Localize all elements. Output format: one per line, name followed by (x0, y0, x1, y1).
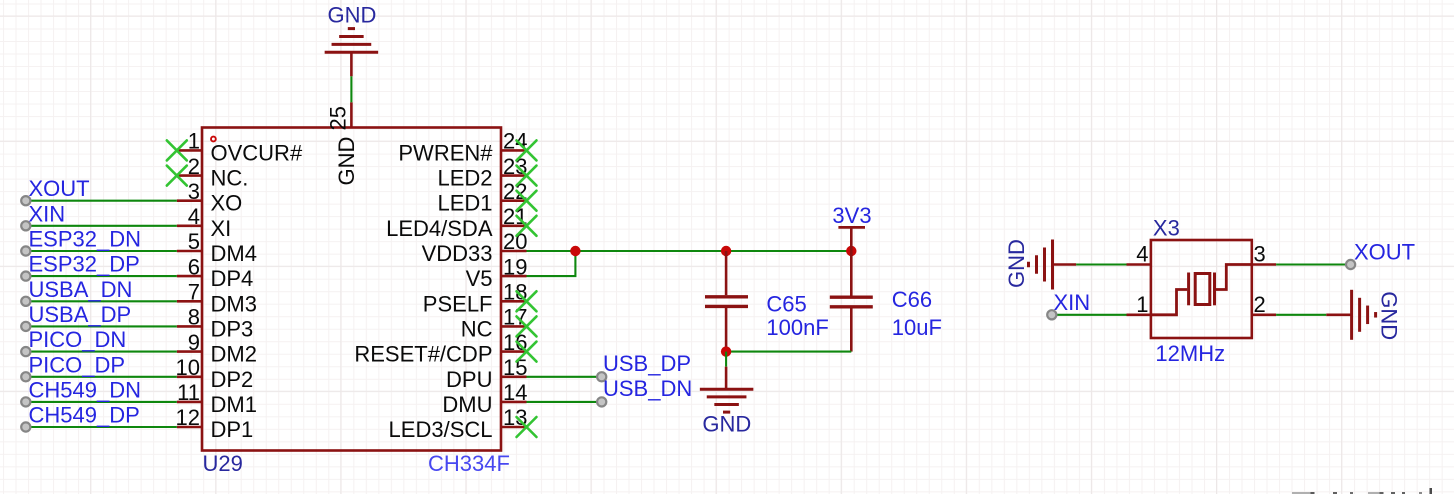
svg-text:GND: GND (702, 411, 751, 436)
svg-text:USB_DP: USB_DP (603, 351, 691, 376)
svg-text:USBA_DN: USBA_DN (29, 277, 133, 302)
X3 pin 4 stub (1127, 263, 1151, 266)
node pad USBA_DN (21, 297, 30, 306)
svg-text:1: 1 (188, 129, 200, 154)
wire pin25 to ground (350, 76, 352, 102)
svg-text:6: 6 (188, 254, 200, 279)
svg-text:1: 1 (1136, 292, 1148, 317)
pin 17 stub (501, 325, 527, 328)
svg-text:ESP32_DN: ESP32_DN (29, 227, 142, 252)
node pad XIN (21, 221, 30, 230)
junction C65 top (721, 246, 731, 256)
svg-text:C65: C65 (766, 291, 806, 316)
node pad USB_DN (597, 397, 606, 406)
pin 2 stub (177, 174, 202, 177)
wire net ESP32_DP (26, 275, 177, 277)
svg-text:22: 22 (503, 179, 527, 204)
svg-text:24: 24 (503, 129, 527, 154)
svg-text:11: 11 (177, 380, 200, 405)
svg-text:9: 9 (188, 330, 200, 355)
svg-text:7: 7 (188, 280, 200, 305)
node pad USBA_DP (21, 322, 30, 331)
wire net ESP32_DN (26, 250, 177, 252)
wire pin2 to ground (1276, 314, 1326, 316)
node pad ESP32_DN (21, 246, 30, 255)
pin 25 stub (350, 102, 353, 127)
svg-text:17: 17 (503, 305, 527, 330)
pin 4 stub (177, 225, 202, 228)
svg-text:CH334F: CH334F (428, 451, 510, 476)
wire XIN to pin 1 (1052, 314, 1127, 316)
wire USB_DP (pin 15) (527, 376, 602, 378)
svg-text:LED4/SDA: LED4/SDA (386, 216, 493, 241)
node pad XOUT (21, 196, 30, 205)
node pad PICO_DP (21, 372, 30, 381)
svg-text:PSELF: PSELF (423, 291, 493, 316)
svg-text:20: 20 (503, 229, 527, 254)
svg-text:LED3/SCL: LED3/SCL (389, 417, 493, 442)
wire net CH549_DN (26, 401, 177, 403)
svg-text:XOUT: XOUT (29, 176, 90, 201)
svg-text:18: 18 (503, 280, 527, 305)
svg-text:12: 12 (176, 405, 200, 430)
svg-text:X3: X3 (1153, 215, 1180, 240)
crystal X3 body (1151, 240, 1252, 338)
node pad CH549_DP (21, 422, 30, 431)
svg-text:3: 3 (1254, 242, 1266, 267)
no-connect flag pin 21 (517, 216, 537, 236)
svg-text:OVCUR#: OVCUR# (211, 140, 303, 165)
pin 9 stub (177, 350, 202, 353)
capacitor C66 (850, 251, 853, 296)
svg-text:VDD33: VDD33 (422, 241, 493, 266)
pin 5 stub (177, 250, 202, 253)
no-connect flag pin 18 (517, 291, 537, 311)
no-connect flag pin 24 (517, 140, 537, 160)
svg-text:GND: GND (1004, 239, 1029, 288)
svg-text:DM3: DM3 (211, 291, 257, 316)
svg-text:15: 15 (503, 355, 527, 380)
wire VDD33 (pin 20 to 3V3/C66) (527, 250, 852, 252)
svg-text:2: 2 (1254, 292, 1266, 317)
node pad PICO_DN (21, 347, 30, 356)
svg-text:GND: GND (1377, 291, 1402, 340)
wire pin3 to XOUT (1276, 263, 1351, 265)
wire V5 (pin 19 up to VDD33) (527, 251, 576, 276)
pin 8 stub (177, 325, 202, 328)
node pad XOUT (1346, 260, 1355, 269)
pin 24 stub (501, 149, 527, 152)
pin 1 indicator dot (211, 137, 216, 142)
svg-text:XIN: XIN (29, 201, 66, 226)
wire net PICO_DN (26, 351, 177, 353)
X3 pin 3 stub (1252, 263, 1276, 266)
svg-text:PICO_DN: PICO_DN (29, 327, 127, 352)
no-connect flag pin 23 (517, 166, 537, 186)
svg-text:12MHz: 12MHz (1155, 341, 1225, 366)
svg-text:CH549_DN: CH549_DN (29, 377, 142, 402)
svg-text:USB_DN: USB_DN (603, 376, 692, 401)
wire pin4 to ground (1076, 263, 1126, 265)
svg-text:10uF: 10uF (892, 315, 942, 340)
pin 22 stub (501, 199, 527, 202)
svg-text:DM4: DM4 (211, 241, 257, 266)
svg-text:C66: C66 (892, 287, 932, 312)
svg-text:DPU: DPU (446, 367, 492, 392)
wire junction down to ground (725, 352, 727, 367)
svg-text:21: 21 (503, 204, 527, 229)
svg-text:USBA_DP: USBA_DP (29, 302, 132, 327)
pin 16 stub (501, 350, 527, 353)
node pad USB_DP (597, 372, 606, 381)
X3 pin 2 stub (1252, 313, 1276, 316)
wire C65 bottom to C66 bottom (726, 351, 851, 353)
svg-text:NC.: NC. (211, 166, 249, 191)
wire net CH549_DP (26, 426, 177, 428)
svg-text:XO: XO (211, 191, 243, 216)
wire net PICO_DP (26, 376, 177, 378)
svg-text:4: 4 (188, 204, 200, 229)
junction C65 bottom (721, 346, 731, 356)
junction 3V3/C66 (846, 246, 856, 256)
wire net XOUT (26, 200, 177, 202)
pin 23 stub (501, 174, 527, 177)
svg-text:13: 13 (503, 405, 527, 430)
wire net XIN (26, 225, 177, 227)
no-connect flag pin 13 (517, 417, 537, 437)
svg-text:DP3: DP3 (211, 316, 254, 341)
svg-text:XOUT: XOUT (1354, 240, 1415, 265)
pin 6 stub (177, 275, 202, 278)
crystal inner symbol (1151, 290, 1187, 315)
svg-text:8: 8 (188, 305, 200, 330)
svg-text:CH549_DP: CH549_DP (29, 403, 140, 428)
svg-text:DP2: DP2 (211, 367, 254, 392)
pin 21 stub (501, 225, 527, 228)
ground (top, above pin 25) (325, 51, 379, 54)
svg-text:GND: GND (328, 3, 377, 28)
svg-text:100nF: 100nF (766, 315, 828, 340)
ground (right of X3) (1326, 313, 1351, 316)
wire USB_DN (pin 14) (527, 401, 602, 403)
pin 20 stub (501, 250, 527, 253)
svg-text:GND: GND (334, 137, 359, 186)
svg-text:2: 2 (188, 154, 200, 179)
node pad ESP32_DP (21, 272, 30, 281)
svg-text:23: 23 (503, 154, 527, 179)
svg-text:V5: V5 (466, 266, 493, 291)
no-connect flag pin 1 (167, 140, 187, 160)
svg-text:XIN: XIN (1054, 290, 1091, 315)
pin 15 stub (501, 375, 527, 378)
pin 14 stub (501, 401, 527, 404)
svg-text:19: 19 (503, 254, 527, 279)
svg-text:DMU: DMU (442, 392, 492, 417)
svg-text:RESET#/CDP: RESET#/CDP (354, 342, 492, 367)
svg-text:DM2: DM2 (211, 342, 257, 367)
no-connect flag pin 17 (517, 316, 537, 336)
wire net USBA_DN (26, 300, 177, 302)
bottom clipped text fragments (1292, 492, 1312, 494)
no-connect flag pin 22 (517, 191, 537, 211)
wire net USBA_DP (26, 325, 177, 327)
svg-text:16: 16 (503, 330, 527, 355)
no-connect flag pin 16 (517, 342, 537, 362)
pin 7 stub (177, 300, 202, 303)
pin 13 stub (501, 426, 527, 429)
ground (below C65) (725, 367, 728, 390)
svg-text:5: 5 (188, 229, 200, 254)
svg-text:PWREN#: PWREN# (398, 140, 493, 165)
svg-text:DP4: DP4 (211, 266, 254, 291)
svg-text:14: 14 (503, 380, 527, 405)
capacitor C65 (725, 251, 728, 295)
pin 18 stub (501, 300, 527, 303)
svg-text:PICO_DP: PICO_DP (29, 352, 126, 377)
pin 12 stub (177, 426, 202, 429)
ground (left of X3) (1053, 263, 1077, 266)
svg-text:DP1: DP1 (211, 417, 254, 442)
pin 1 stub (177, 149, 202, 152)
svg-text:XI: XI (211, 216, 232, 241)
op-amp U29 body (IC CH334F box) (202, 128, 501, 451)
svg-text:3V3: 3V3 (832, 203, 871, 228)
svg-text:10: 10 (176, 355, 200, 380)
svg-text:NC: NC (461, 316, 493, 341)
pin 19 stub (501, 275, 527, 278)
svg-text:4: 4 (1136, 242, 1148, 267)
node pad XIN (1047, 310, 1056, 319)
pin 3 stub (177, 199, 202, 202)
node pad CH549_DN (21, 397, 30, 406)
junction V5/VDD33 (570, 246, 580, 256)
pin 10 stub (177, 375, 202, 378)
svg-text:LED1: LED1 (437, 191, 492, 216)
X3 pin 1 stub (1127, 313, 1151, 316)
svg-text:DM1: DM1 (211, 392, 257, 417)
svg-text:U29: U29 (203, 451, 243, 476)
no-connect flag pin 2 (167, 166, 187, 186)
svg-text:LED2: LED2 (437, 166, 492, 191)
power flag 3V3 (838, 226, 865, 229)
svg-text:3: 3 (188, 179, 200, 204)
pin 11 stub (177, 401, 202, 404)
svg-text:25: 25 (326, 106, 351, 130)
svg-text:ESP32_DP: ESP32_DP (29, 252, 140, 277)
